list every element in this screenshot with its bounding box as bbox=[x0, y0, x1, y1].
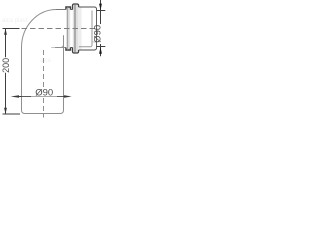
dim O90 bottom right arrow bbox=[64, 95, 72, 98]
elbow body outline: outer curve, left wall, bottom, right wall, inner corner arc bbox=[22, 10, 66, 114]
body shade band bbox=[79, 7, 82, 50]
socket rings bbox=[66, 4, 97, 53]
notch horizontals bbox=[71, 10, 73, 48]
gasket bead bbox=[73, 4, 79, 53]
dim 200 extension line bottom bbox=[3, 113, 21, 115]
bead fill bbox=[73, 4, 79, 52]
ring 1 bbox=[66, 7, 71, 50]
bore stub fade bbox=[51, 47, 55, 49]
vertical centerline bbox=[43, 50, 45, 118]
ring 1 fill bbox=[66, 7, 70, 50]
dim 200 arrow up bbox=[4, 29, 7, 35]
dim O90 right: extension bottom bbox=[97, 46, 106, 48]
dim O90 right: extension top bbox=[97, 10, 106, 12]
dim 200 extension line top bbox=[3, 28, 20, 30]
dim 200 arrow down bbox=[4, 108, 7, 114]
dim O90 bottom left arrow bbox=[11, 95, 19, 98]
dim O90 bottom: dashed line inside pipe bbox=[22, 96, 64, 98]
ring 1 inner line bbox=[67, 7, 69, 50]
bead inner line bbox=[74, 4, 76, 53]
svg-text:Ø90: Ø90 bbox=[93, 25, 104, 43]
svg-text:Ø90: Ø90 bbox=[35, 88, 53, 99]
dim O90 right: line bbox=[100, 0, 102, 56]
svg-text:alca plast: alca plast bbox=[2, 18, 28, 24]
socket face outer bbox=[96, 9, 98, 48]
dim O90 bottom text bg bbox=[35, 88, 53, 96]
dim 200 line bbox=[5, 29, 7, 114]
dim O90 right bottom arrow bbox=[99, 47, 102, 54]
socket mouth chamfer line bbox=[92, 41, 96, 43]
horizontal centerline bbox=[22, 28, 97, 30]
socket bore line bbox=[79, 11, 92, 47]
top edge of horizontal pipe bbox=[56, 9, 66, 11]
svg-text:alca: alca bbox=[40, 58, 52, 64]
svg-text:200: 200 bbox=[1, 58, 11, 73]
socket body bbox=[79, 7, 97, 50]
dim O90 right top arrow bbox=[99, 4, 102, 11]
